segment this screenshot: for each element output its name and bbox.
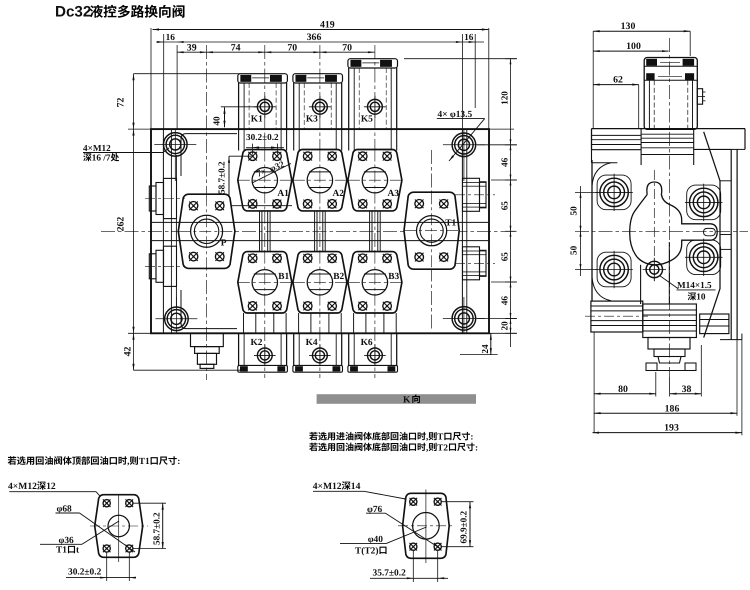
svg-text:K6: K6 <box>361 338 373 348</box>
side body left edge <box>592 150 618 301</box>
svg-text:B1: B1 <box>278 272 289 282</box>
svg-text:4×M12: 4×M12 <box>83 143 111 153</box>
side bolt lower-right <box>685 239 722 276</box>
B-K lower housing lines <box>244 313 397 333</box>
svg-text:42: 42 <box>123 347 134 357</box>
svg-text:12: 12 <box>46 481 56 492</box>
svg-text:262: 262 <box>116 217 127 232</box>
work port flange A3 <box>348 150 402 211</box>
svg-text:4×M12: 4×M12 <box>8 481 37 492</box>
svg-text:,: , <box>127 457 129 467</box>
svg-text:100: 100 <box>626 41 641 52</box>
side bolt lower-left <box>595 251 632 288</box>
K view gray bar <box>317 394 476 405</box>
detail dim 58.7 <box>133 503 166 548</box>
section centerlines <box>101 45 517 380</box>
detail labels phi76 phi40 T(T2) <box>340 505 441 557</box>
svg-text:70: 70 <box>342 42 352 53</box>
inlet section inner corner <box>181 134 237 329</box>
svg-text:38: 38 <box>682 384 692 395</box>
detail labels phi68 phi36 T1 <box>40 505 135 556</box>
dim 30.2 A1 bolts <box>246 132 284 155</box>
svg-text:T2: T2 <box>437 442 448 452</box>
svg-text:,: , <box>426 432 428 442</box>
svg-text:16 /7: 16 /7 <box>92 153 111 163</box>
side mounting plate band <box>592 129 746 165</box>
svg-text:65: 65 <box>500 201 510 211</box>
svg-text:T1: T1 <box>139 457 150 467</box>
svg-text:30.2±0.2: 30.2±0.2 <box>246 132 279 142</box>
svg-text:B3: B3 <box>388 272 399 282</box>
svg-text:T1: T1 <box>445 219 456 229</box>
svg-text:P: P <box>221 238 227 248</box>
side bottom left plate <box>585 301 648 332</box>
left relief valve boss upper <box>145 178 185 218</box>
dim 72 262 42 left chain <box>116 74 241 371</box>
section divider walls <box>239 129 397 150</box>
label 7x phi32 leader <box>252 159 291 183</box>
side bolt upper-left <box>595 174 632 211</box>
svg-text:10: 10 <box>696 292 706 302</box>
detail T1 bolts <box>103 499 133 552</box>
dim 58.7 left <box>196 156 292 206</box>
bottom cap K2 <box>238 333 288 372</box>
dim 24 bottom right <box>460 333 498 354</box>
svg-text:K2: K2 <box>251 338 263 348</box>
svg-text:193: 193 <box>664 423 679 434</box>
side view dim 62 <box>593 75 639 129</box>
side dim 186 <box>594 340 737 416</box>
svg-text:39: 39 <box>187 42 197 53</box>
detail flange T2 outline <box>398 490 455 564</box>
svg-text:50: 50 <box>569 245 579 255</box>
detail flange T1 outline <box>90 494 148 562</box>
svg-text:20: 20 <box>500 321 510 331</box>
svg-text::: : <box>470 432 473 442</box>
mounting hole hole top-right <box>443 130 485 181</box>
detail T2 bolts <box>410 498 442 551</box>
side body right trapezoid edge <box>704 132 742 340</box>
svg-text:T(T2): T(T2) <box>355 546 378 556</box>
detail dim 69.9 <box>441 502 474 547</box>
A flange white fills <box>238 150 402 211</box>
label M14x1.5 deep10 <box>677 280 716 302</box>
svg-text:72: 72 <box>116 98 127 108</box>
center casting boss <box>630 182 718 265</box>
svg-text:Dc32: Dc32 <box>55 4 91 21</box>
svg-text::: : <box>475 442 478 452</box>
svg-text:62: 62 <box>613 75 623 86</box>
detail dim 35.7 <box>370 551 448 582</box>
svg-text:M14×1.5: M14×1.5 <box>677 280 712 290</box>
detail dim 30.2 <box>66 552 136 581</box>
svg-text:65: 65 <box>500 252 510 262</box>
right valve boss upper <box>455 178 495 211</box>
top cap K5 <box>348 59 398 129</box>
side bolt upper-right <box>685 184 722 221</box>
svg-text:,: , <box>426 442 428 452</box>
dim 50 50 side left <box>569 186 598 276</box>
svg-text:130: 130 <box>621 21 636 32</box>
svg-text:A3: A3 <box>388 189 400 199</box>
work port flange A1 <box>238 150 292 211</box>
svg-text:58.7±0.2: 58.7±0.2 <box>217 161 227 194</box>
side chain centerlines <box>575 38 748 377</box>
A-B connector necks <box>260 211 381 252</box>
bottom cap K6 <box>348 333 398 372</box>
mounting hole hole bottom-right <box>443 297 485 333</box>
dim chain 39 74 70 70 <box>177 42 374 53</box>
side view dim 130 <box>593 21 690 129</box>
svg-text:186: 186 <box>665 403 680 414</box>
svg-text:14: 14 <box>351 481 361 492</box>
svg-text:80: 80 <box>618 384 628 395</box>
svg-text:K4: K4 <box>306 338 318 348</box>
right valve boss lower <box>455 247 495 280</box>
detail label 4xM12 deep12 <box>8 481 105 501</box>
svg-text:30.2±0.2: 30.2±0.2 <box>68 568 102 578</box>
cap side tab <box>697 89 705 105</box>
svg-text:58.7±0.2: 58.7±0.2 <box>152 512 162 545</box>
svg-text:16: 16 <box>166 33 176 43</box>
svg-text:35.7±0.2: 35.7±0.2 <box>373 569 407 579</box>
svg-text:K: K <box>403 394 411 405</box>
dim 419 top <box>151 20 489 130</box>
svg-text:K3: K3 <box>306 114 318 124</box>
top cap K3 <box>293 74 343 129</box>
svg-text:419: 419 <box>320 20 335 31</box>
side view dim 100 <box>593 41 668 52</box>
svg-text:A2: A2 <box>333 189 345 199</box>
svg-text:70: 70 <box>287 42 297 53</box>
svg-text:K5: K5 <box>361 114 373 124</box>
mounting hole hole bottom-left <box>155 297 197 333</box>
svg-text:16: 16 <box>464 33 474 43</box>
spool bore lines <box>151 222 489 240</box>
svg-text:40: 40 <box>213 116 223 126</box>
work port flange B1 <box>238 252 292 313</box>
svg-text:T: T <box>437 432 443 442</box>
pilot cap side view <box>644 58 697 130</box>
svg-text:B2: B2 <box>333 272 344 282</box>
dim 16 left and 366 <box>156 32 462 129</box>
svg-text:120: 120 <box>500 91 510 105</box>
note right T bottom <box>309 432 473 442</box>
side bottom center block and drain plug <box>641 242 697 371</box>
svg-text:74: 74 <box>231 42 241 53</box>
svg-text:4×M12: 4×M12 <box>313 481 342 492</box>
svg-text:46: 46 <box>500 157 510 167</box>
svg-text:K1: K1 <box>251 114 263 124</box>
dim 40 K1 port <box>213 107 258 127</box>
svg-text:24: 24 <box>480 344 490 354</box>
mounting hole hole top-left <box>154 130 196 181</box>
svg-text:50: 50 <box>569 206 579 216</box>
svg-text:69.9±0.2: 69.9±0.2 <box>458 510 468 543</box>
inlet port flange P <box>178 194 235 268</box>
label 4xM12 deep16 x7 <box>83 143 169 163</box>
detail label 4xM12 deep14 <box>313 481 411 500</box>
right dim chain 120 46 65 65 46 20 <box>404 59 517 347</box>
svg-text:A1: A1 <box>277 189 289 199</box>
work port flange B3 <box>348 252 402 313</box>
left relief valve boss lower <box>145 246 185 286</box>
B flange white fills <box>238 252 402 313</box>
dim 16 right <box>462 33 484 129</box>
M14 port circle <box>643 258 679 289</box>
title Dc32 hydraulic multi-way valve <box>55 4 185 21</box>
note right T2 bottom <box>309 442 478 452</box>
main body outline <box>151 129 489 333</box>
svg-text:46: 46 <box>500 296 510 306</box>
outlet port flange T1 <box>404 192 459 269</box>
note left T1 top <box>8 456 181 467</box>
work port flange A2 <box>293 150 347 211</box>
bottom cap K4 <box>293 333 343 372</box>
svg-text:T1: T1 <box>56 546 67 556</box>
side dims 80 38 <box>594 332 701 433</box>
side bottom right plate <box>700 314 729 334</box>
label 4x phi13.5 <box>437 110 485 161</box>
work port flange B2 <box>293 252 347 313</box>
side bolt bosses <box>597 175 721 287</box>
drain fitting below P <box>191 333 224 368</box>
svg-text:366: 366 <box>307 32 322 43</box>
top cap K1 <box>238 74 288 129</box>
side dim 193 <box>593 340 742 436</box>
svg-text::: : <box>177 457 180 467</box>
